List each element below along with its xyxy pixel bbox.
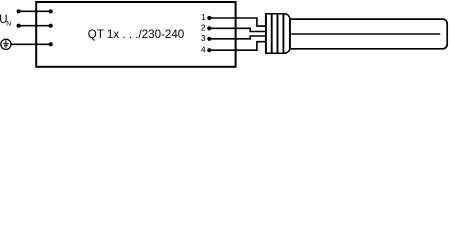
svg-text:N: N xyxy=(6,21,11,28)
wire 1 xyxy=(209,18,269,26)
label 2 xyxy=(201,23,206,33)
label 4 xyxy=(201,44,206,54)
lamp base right wall xyxy=(289,19,291,49)
terminal dot 4 xyxy=(207,48,211,52)
terminal dot 3 xyxy=(207,37,211,41)
wire 4 xyxy=(209,42,269,51)
wire 2 xyxy=(209,28,269,31)
svg-text:1: 1 xyxy=(201,12,206,22)
wire PE xyxy=(10,43,50,45)
lamp base wall c xyxy=(277,14,279,54)
terminal dot N input xyxy=(17,24,21,28)
lamp base 2G11: outline with rounded right shoulder xyxy=(266,14,290,53)
terminal dot N inside box xyxy=(49,24,53,28)
wire L xyxy=(19,10,51,12)
terminal dot L inside box xyxy=(49,9,53,13)
lamp tube DULUX L xyxy=(291,19,448,49)
label 1 xyxy=(201,12,206,22)
wire 3 xyxy=(209,36,269,39)
terminal dot 1 xyxy=(207,16,211,20)
svg-text:3: 3 xyxy=(201,33,206,43)
ground symbol (protective earth in circle) xyxy=(1,39,11,49)
label 3 xyxy=(201,33,206,43)
terminal dot 2 xyxy=(207,26,211,30)
lamp base wall b xyxy=(271,14,273,54)
svg-text:4: 4 xyxy=(201,44,206,54)
label U_N xyxy=(0,14,8,26)
label QT 1x .../230-240 xyxy=(88,28,184,41)
lamp base wall d xyxy=(282,14,284,54)
lamp tube fold line xyxy=(291,33,440,35)
lamp base wall a xyxy=(265,13,267,54)
wire N xyxy=(19,25,51,27)
svg-text:2: 2 xyxy=(201,23,206,33)
ballast box QT 1x .../230-240 xyxy=(36,2,235,67)
terminal dot PE inside box xyxy=(49,42,53,46)
terminal dot L input xyxy=(17,9,21,13)
svg-text:QT 1x . . ./230-240: QT 1x . . ./230-240 xyxy=(88,28,184,41)
